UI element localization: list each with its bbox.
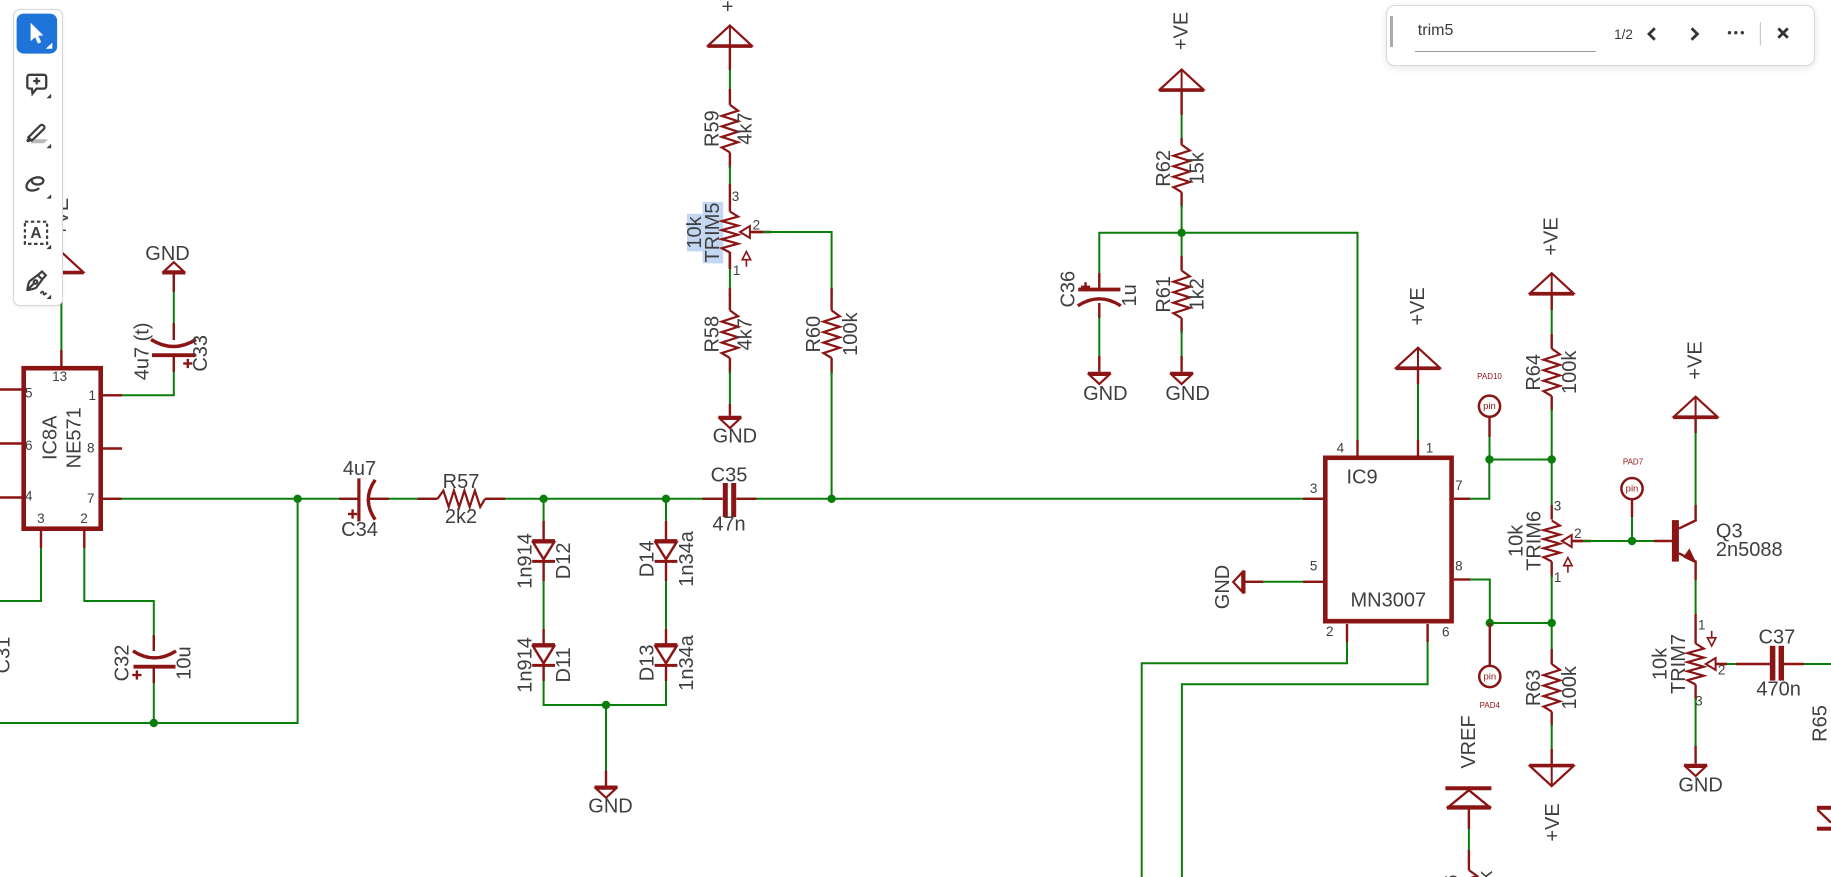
wire C37 to right edge [1784, 663, 1831, 665]
node junction R62/R61 [1177, 229, 1185, 237]
transistor Q3 2n5088 [1672, 520, 1783, 563]
wire R58 to GND [729, 372, 731, 416]
svg-text:1k2: 1k2 [1186, 278, 1208, 310]
svg-text:C33: C33 [190, 335, 212, 372]
ground (IC9 pin5) [1212, 565, 1244, 609]
svg-text:PAD10: PAD10 [1477, 372, 1502, 381]
wire IC9 pin6 down-left [1182, 624, 1428, 877]
wire R61 to GND [1181, 331, 1183, 372]
svg-text:2: 2 [753, 217, 761, 232]
toolbar panel [13, 9, 63, 306]
IC8A pin 4 stub [0, 496, 22, 498]
svg-text:R57: R57 [443, 471, 480, 493]
svg-text:+VE: +VE [1542, 803, 1564, 841]
node junction C32/bottom rail [150, 719, 158, 727]
wire PAD4 to junction [1489, 623, 1491, 666]
svg-text:GND: GND [1165, 383, 1209, 405]
svg-text:4: 4 [1337, 441, 1345, 456]
wire IC8A pin3 down-left [0, 529, 41, 601]
diode D14 1n34a [637, 530, 698, 586]
svg-text:VREF: VREF [1458, 715, 1480, 768]
svg-text:C31: C31 [0, 637, 15, 674]
search overlay [1386, 5, 1815, 66]
pad PAD4 [1479, 666, 1500, 710]
wire R59 to TRIM5 [729, 166, 731, 184]
wire junction rail to C36 and IC9 pin4 [1099, 233, 1357, 456]
resistor R57 2k2 [438, 471, 486, 528]
svg-text:D13: D13 [637, 645, 659, 682]
svg-text:C34: C34 [341, 519, 378, 541]
svg-text:R60: R60 [803, 316, 825, 353]
svg-text:C32: C32 [111, 645, 133, 682]
wire PAD7 to junction [1631, 500, 1633, 542]
wire C36 to GND [1098, 303, 1100, 372]
wire +VE to IC9 pin1 [1417, 369, 1419, 456]
ground (C36) [1083, 373, 1127, 405]
svg-text:1n34a: 1n34a [676, 634, 698, 690]
pad PAD10 [1477, 372, 1502, 417]
IC8A pin 8 stub [102, 447, 122, 449]
wire PAD10 to junction [1489, 417, 1491, 460]
resistor R62 15k [1153, 138, 1208, 207]
wire main signal net (IC8A pin7 to IC9 pin3) [103, 498, 1323, 500]
svg-text:MN3007: MN3007 [1351, 590, 1427, 612]
wire junction to TRIM6 [1551, 460, 1553, 520]
svg-text:100k: 100k [840, 312, 862, 356]
ground (R58) [713, 417, 757, 447]
pad PAD7 [1621, 457, 1643, 499]
svg-text:1n914: 1n914 [514, 533, 536, 589]
svg-text:5: 5 [1310, 558, 1318, 573]
svg-text:R62: R62 [1153, 150, 1175, 187]
svg-text:pin: pin [1483, 401, 1496, 412]
power +VE (R64 top) [1529, 217, 1574, 295]
svg-text:4k7: 4k7 [735, 318, 757, 350]
svg-text:2k2: 2k2 [445, 506, 477, 528]
power +VE (below R63, flipped) [1529, 764, 1574, 842]
svg-text:47n: 47n [712, 514, 745, 536]
svg-text:GND: GND [1678, 774, 1722, 796]
wire IC9 pin7 up to R64 rail [1454, 460, 1552, 499]
wire Q3 emitter to TRIM7 [1695, 562, 1697, 629]
svg-text:R61: R61 [1153, 276, 1175, 313]
svg-text:PAD7: PAD7 [1623, 457, 1644, 466]
svg-text:IC8A: IC8A [40, 415, 62, 460]
svg-text:TRIM6: TRIM6 [1524, 511, 1546, 571]
node junction at x297 [293, 495, 301, 503]
svg-text:7: 7 [87, 491, 95, 506]
svg-text:C35: C35 [711, 464, 748, 486]
svg-text:4u7: 4u7 [343, 458, 376, 480]
svg-text:+VE: +VE [1541, 217, 1563, 255]
node junction at x666 [662, 495, 670, 503]
svg-text:+VE: +VE [1685, 341, 1707, 379]
svg-text:4u7 (t): 4u7 (t) [132, 322, 154, 380]
svg-text:TRIM7: TRIM7 [1668, 634, 1690, 694]
capacitor C33 4u7 (t) polarized [132, 322, 212, 380]
potentiometer TRIM7 10k (flipped) [1650, 618, 1727, 709]
svg-text:2: 2 [1574, 526, 1582, 541]
svg-text:2n5088: 2n5088 [1716, 539, 1783, 561]
svg-text:15k: 15k [1186, 151, 1208, 184]
svg-text:1: 1 [733, 263, 741, 278]
svg-text:3: 3 [732, 189, 740, 204]
wire R64 to junction [1551, 409, 1553, 460]
svg-text:8: 8 [87, 441, 95, 456]
svg-text:R58: R58 [701, 316, 723, 353]
svg-text:GND: GND [145, 243, 189, 265]
ground (TRIM7) [1678, 765, 1722, 796]
node junction PAD7 [1628, 537, 1636, 545]
wire C32 to bottom rail [153, 667, 155, 723]
ground (above C33) [145, 243, 189, 273]
wire +VE to R59 [729, 47, 731, 91]
IC8A pin 5 stub [0, 388, 22, 390]
svg-text:470n: 470n [1756, 678, 1801, 700]
wire R60 to main net [831, 372, 833, 499]
power +VE (IC8A pin 13) [39, 198, 84, 274]
svg-text:4: 4 [25, 488, 33, 503]
power +VE (Q3 collector) [1673, 341, 1718, 419]
svg-text:GND: GND [1083, 383, 1127, 405]
wire diode bottoms to GND [544, 665, 666, 785]
wire GND to IC9 pin5 [1244, 581, 1323, 583]
wire zener to R66 [1468, 808, 1470, 871]
capacitor C36 1u polarized [1057, 271, 1141, 308]
potentiometer TRIM6 10k [1506, 499, 1592, 586]
svg-text:8: 8 [1455, 558, 1463, 573]
power +VE (IC9 pin1) [1396, 287, 1441, 370]
svg-text:D11: D11 [553, 647, 575, 682]
node junction TRIM6/R63 [1548, 619, 1556, 627]
diode D11 1n914 [514, 637, 575, 693]
node junction at x543 [539, 495, 547, 503]
wire node666 to D14 [665, 499, 667, 541]
node junction PAD4 [1486, 619, 1494, 627]
wire junction to R61 [1181, 233, 1183, 271]
op-amp IC8A NE571 compander box [24, 368, 101, 529]
wire junction to R63 [1551, 623, 1553, 664]
wire +VE to R64 [1551, 294, 1553, 349]
wire bottom rail y723 [0, 499, 298, 723]
svg-text:R59: R59 [701, 110, 723, 147]
delay line IC9 MN3007 box [1325, 458, 1451, 621]
capacitor C37 470n [1756, 626, 1801, 700]
wire GND to C33 [173, 275, 175, 341]
power +VE (R59 top, clipped) [707, 0, 752, 48]
wire TRIM7 pin3 to GND [1695, 698, 1697, 764]
wire IC9 pin2 down-left [1142, 624, 1347, 877]
svg-text:NE571: NE571 [63, 407, 85, 468]
svg-text:+VE: +VE [1171, 12, 1193, 50]
resistor R60 100k [803, 295, 862, 374]
capacitor C35 47n [711, 464, 748, 535]
svg-text:GND: GND [713, 426, 757, 448]
resistor R58 4k7 [701, 295, 756, 374]
svg-text:GND: GND [1212, 565, 1234, 609]
svg-text:100k: 100k [1559, 350, 1581, 394]
wire TRIM7 pin2 to C37 [1716, 663, 1770, 665]
svg-text:10u: 10u [173, 646, 195, 679]
svg-text:C36: C36 [1057, 271, 1079, 308]
potentiometer TRIM5 10k (selected) [684, 184, 772, 278]
svg-text:1n914: 1n914 [514, 637, 536, 693]
wire TRIM5 pin1 to R58 [729, 252, 731, 296]
svg-text:A: A [30, 225, 41, 242]
svg-text:1u: 1u [1119, 284, 1141, 306]
wire TRIM6 pin1 down to junction [1551, 575, 1553, 623]
wire TRIM6 pin2 to Q3 base [1572, 540, 1672, 542]
svg-text:3: 3 [1310, 481, 1318, 496]
svg-text:D14: D14 [637, 541, 659, 578]
svg-text:1: 1 [1698, 618, 1706, 633]
node junction R64/TRIM6 [1548, 455, 1556, 463]
resistor R64 100k [1523, 349, 1581, 412]
svg-text:6: 6 [25, 438, 33, 453]
wire node543 to D12 [543, 499, 545, 541]
wire +VE to Q3 collector [1695, 418, 1697, 521]
resistor R66 fragment at bottom [1441, 870, 1497, 877]
svg-text:2: 2 [1326, 624, 1334, 639]
svg-text:2: 2 [80, 511, 88, 526]
wire C33 to IC8A pin 1 [103, 355, 174, 395]
capacitor C34 4u7 polarized [341, 458, 378, 541]
svg-text:3: 3 [1554, 499, 1562, 514]
svg-text:6: 6 [1442, 624, 1450, 639]
wire pin13 to +VE [60, 274, 62, 367]
diode D12 1n914 [514, 533, 575, 589]
diode fragment bottom right [1817, 808, 1831, 829]
svg-text:R63: R63 [1523, 669, 1545, 706]
power +VE (R62 top) [1159, 12, 1204, 92]
svg-text:1: 1 [1554, 570, 1562, 585]
node junction at x831 [827, 495, 835, 503]
svg-text:GND: GND [588, 796, 632, 818]
svg-text:1: 1 [89, 388, 97, 403]
svg-text:C37: C37 [1759, 626, 1796, 648]
svg-text:100k: 100k [1559, 665, 1581, 709]
wire R62 to junction [1181, 205, 1183, 233]
wire D12 to D11 [543, 561, 545, 644]
resistor R63 100k [1523, 664, 1581, 726]
zener diode (VREF) [1445, 788, 1491, 807]
wire +VE to R62 [1181, 91, 1183, 140]
svg-text:pin: pin [1626, 484, 1639, 495]
wire TRIM5 pin2 to R60 [750, 232, 832, 296]
svg-text:1n34a: 1n34a [676, 530, 698, 586]
wire junction rail y623 [1490, 622, 1552, 624]
svg-text:R64: R64 [1523, 354, 1545, 391]
svg-text:+VE: +VE [718, 0, 740, 12]
wire IC9 pin8 to PAD4 junction [1454, 580, 1490, 624]
svg-text:5: 5 [25, 385, 33, 400]
svg-text:15k: 15k [1475, 870, 1497, 877]
resistor R61 1k2 [1153, 271, 1208, 334]
wire D14 to D13 [665, 561, 667, 644]
resistor R59 4k7 [701, 89, 756, 168]
diode D13 1n34a [637, 634, 698, 690]
ground (diodes) [588, 787, 632, 818]
IC8A pin 6 stub [0, 442, 22, 444]
svg-text:IC9: IC9 [1347, 467, 1378, 489]
svg-text:D12: D12 [553, 543, 575, 580]
wire R63 to +VE down [1551, 724, 1553, 764]
wire IC8A pin2 to C32 [84, 529, 154, 651]
svg-text:PAD4: PAD4 [1480, 701, 1501, 710]
svg-text:1: 1 [1426, 441, 1434, 456]
svg-text:pin: pin [1483, 672, 1496, 683]
svg-text:4k7: 4k7 [735, 112, 757, 144]
svg-text:TRIM5: TRIM5 [702, 203, 724, 263]
node junction PAD10 [1485, 455, 1493, 463]
capacitor C32 10u polarized [111, 645, 195, 682]
ground (R61) [1165, 373, 1209, 405]
svg-text:13: 13 [52, 369, 67, 384]
svg-text:R65: R65 [1809, 705, 1831, 742]
node junction diode GND [602, 701, 610, 709]
svg-text:7: 7 [1455, 478, 1463, 493]
svg-text:+VE: +VE [1407, 287, 1429, 325]
svg-text:3: 3 [37, 511, 45, 526]
